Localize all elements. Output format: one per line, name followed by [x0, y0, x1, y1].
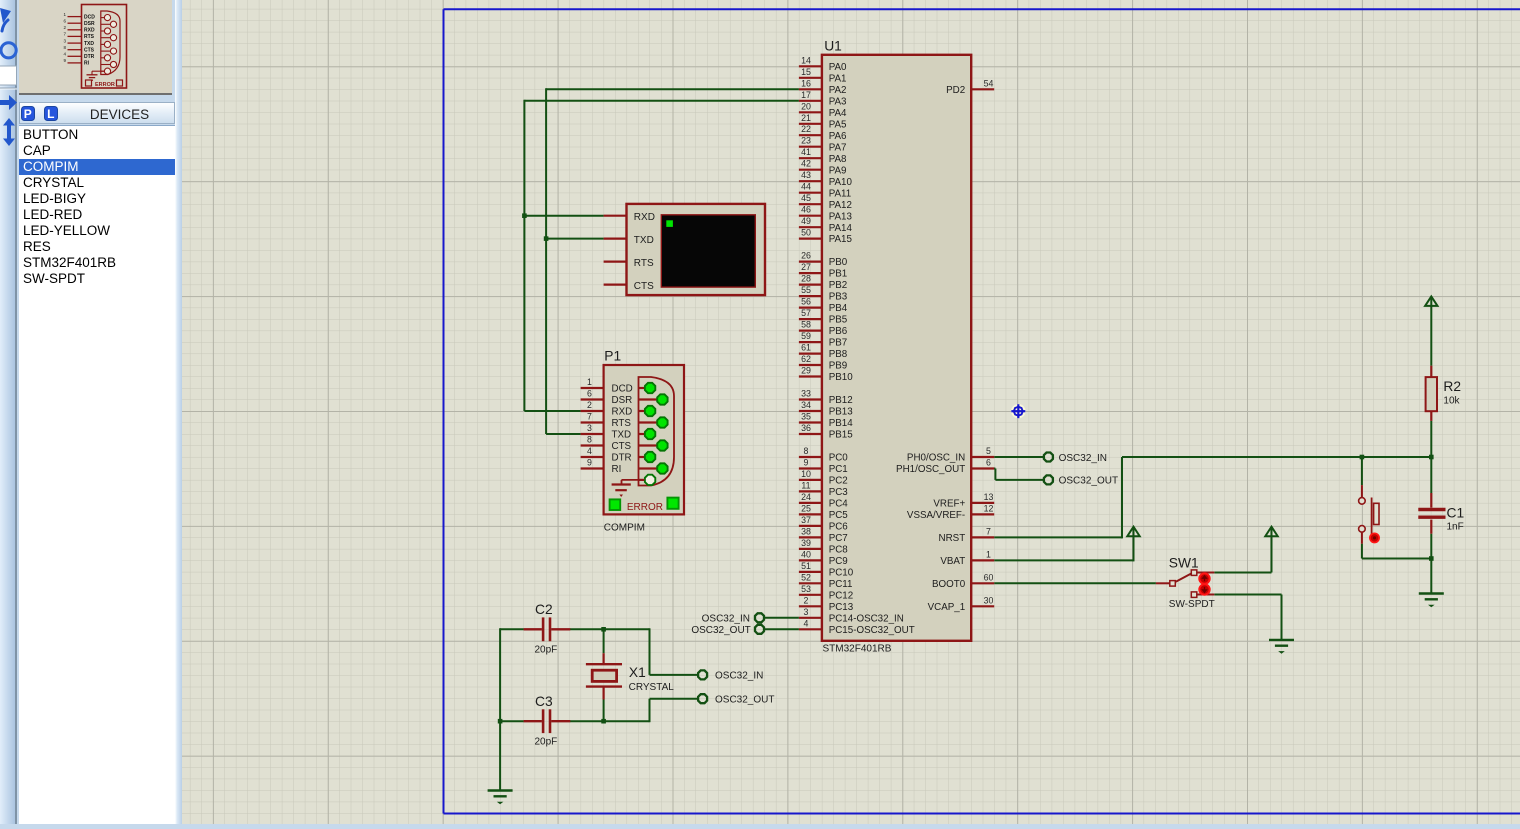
- svg-text:DSR: DSR: [612, 395, 633, 406]
- svg-text:TXD: TXD: [634, 235, 654, 246]
- svg-text:9: 9: [804, 458, 809, 468]
- svg-text:8: 8: [804, 446, 809, 456]
- svg-text:PB3: PB3: [829, 292, 848, 303]
- svg-text:58: 58: [801, 320, 811, 330]
- svg-text:20pF: 20pF: [535, 644, 558, 655]
- svg-text:3: 3: [804, 607, 809, 617]
- svg-text:RXD: RXD: [612, 407, 633, 418]
- svg-text:17: 17: [801, 90, 811, 100]
- svg-text:P1: P1: [604, 349, 621, 364]
- svg-text:6: 6: [63, 18, 66, 23]
- svg-text:ERROR: ERROR: [95, 82, 115, 88]
- svg-text:VSSA/VREF-: VSSA/VREF-: [907, 510, 965, 521]
- svg-text:26: 26: [801, 251, 811, 261]
- svg-text:NRST: NRST: [939, 533, 966, 544]
- svg-text:BOOT0: BOOT0: [932, 579, 966, 590]
- svg-text:PC4: PC4: [829, 499, 849, 510]
- svg-text:43: 43: [801, 170, 811, 180]
- svg-text:11: 11: [801, 480, 810, 490]
- svg-text:39: 39: [801, 538, 811, 548]
- svg-text:RXD: RXD: [84, 28, 95, 34]
- svg-text:PH0/OSC_IN: PH0/OSC_IN: [907, 453, 965, 464]
- svg-text:40: 40: [801, 549, 811, 559]
- svg-text:COMPIM: COMPIM: [604, 523, 645, 534]
- svg-text:7: 7: [587, 412, 592, 422]
- svg-text:PC6: PC6: [829, 522, 849, 533]
- svg-text:PA2: PA2: [829, 85, 847, 96]
- svg-text:C2: C2: [535, 602, 553, 617]
- svg-text:57: 57: [801, 308, 811, 318]
- svg-text:RTS: RTS: [634, 258, 654, 269]
- svg-text:RI: RI: [612, 464, 622, 475]
- svg-text:PD2: PD2: [946, 85, 965, 96]
- svg-text:46: 46: [801, 205, 811, 215]
- svg-text:X1: X1: [629, 665, 646, 680]
- svg-text:OSC32_OUT: OSC32_OUT: [715, 695, 774, 706]
- svg-text:C1: C1: [1447, 506, 1465, 521]
- svg-text:DSR: DSR: [84, 21, 95, 27]
- svg-text:37: 37: [801, 515, 811, 525]
- svg-text:PC13: PC13: [829, 602, 854, 613]
- svg-text:PA7: PA7: [829, 142, 847, 153]
- svg-text:PA9: PA9: [829, 165, 847, 176]
- svg-text:DCD: DCD: [84, 14, 95, 20]
- svg-text:62: 62: [801, 354, 811, 364]
- svg-text:25: 25: [801, 503, 811, 513]
- svg-text:3: 3: [63, 38, 66, 43]
- svg-text:PC3: PC3: [829, 487, 849, 498]
- svg-text:DCD: DCD: [612, 384, 633, 395]
- svg-text:PC15-OSC32_OUT: PC15-OSC32_OUT: [829, 625, 915, 636]
- svg-text:PB14: PB14: [829, 418, 854, 429]
- svg-text:PA10: PA10: [829, 177, 853, 188]
- svg-text:RTS: RTS: [612, 418, 632, 429]
- svg-text:PA11: PA11: [829, 188, 852, 199]
- svg-text:5: 5: [986, 446, 991, 456]
- svg-text:2: 2: [587, 400, 592, 410]
- svg-text:15: 15: [801, 67, 811, 77]
- svg-text:16: 16: [801, 78, 811, 88]
- svg-text:8: 8: [587, 435, 592, 445]
- svg-text:VCAP_1: VCAP_1: [928, 602, 966, 613]
- svg-text:35: 35: [801, 412, 811, 422]
- svg-text:6: 6: [587, 389, 592, 399]
- svg-text:4: 4: [63, 52, 66, 57]
- svg-text:TXD: TXD: [612, 430, 632, 441]
- svg-text:ERROR: ERROR: [627, 502, 663, 513]
- svg-text:PC7: PC7: [829, 533, 848, 544]
- svg-text:36: 36: [801, 423, 811, 433]
- svg-text:42: 42: [801, 159, 811, 169]
- svg-text:24: 24: [801, 492, 811, 502]
- svg-text:8: 8: [63, 45, 66, 50]
- svg-text:VBAT: VBAT: [940, 556, 965, 567]
- svg-text:56: 56: [801, 297, 811, 307]
- svg-text:CTS: CTS: [84, 48, 95, 54]
- svg-text:1: 1: [63, 12, 66, 17]
- svg-text:PC10: PC10: [829, 568, 854, 579]
- svg-text:VREF+: VREF+: [933, 499, 965, 510]
- svg-text:DTR: DTR: [612, 453, 632, 464]
- svg-text:CTS: CTS: [634, 281, 654, 292]
- svg-text:PB5: PB5: [829, 315, 848, 326]
- svg-text:SW-SPDT: SW-SPDT: [1169, 599, 1215, 610]
- svg-text:53: 53: [801, 584, 811, 594]
- svg-text:OSC32_IN: OSC32_IN: [715, 671, 763, 682]
- svg-text:PC14-OSC32_IN: PC14-OSC32_IN: [829, 613, 904, 624]
- svg-text:4: 4: [804, 618, 809, 628]
- svg-text:PC5: PC5: [829, 510, 849, 521]
- svg-text:3: 3: [587, 423, 592, 433]
- svg-text:45: 45: [801, 193, 811, 203]
- svg-text:22: 22: [801, 124, 811, 134]
- svg-text:50: 50: [801, 228, 811, 238]
- svg-text:55: 55: [801, 285, 811, 295]
- svg-text:PB0: PB0: [829, 257, 848, 268]
- svg-text:20: 20: [801, 101, 811, 111]
- svg-text:PA5: PA5: [829, 119, 847, 130]
- svg-text:RXD: RXD: [634, 212, 655, 223]
- svg-text:34: 34: [801, 400, 811, 410]
- svg-text:PC12: PC12: [829, 590, 854, 601]
- svg-text:PC9: PC9: [829, 556, 848, 567]
- svg-text:60: 60: [984, 572, 994, 582]
- svg-text:PB4: PB4: [829, 303, 848, 314]
- svg-text:52: 52: [801, 572, 811, 582]
- svg-text:OSC32_IN: OSC32_IN: [1059, 453, 1107, 464]
- svg-text:OSC32_OUT: OSC32_OUT: [1059, 476, 1118, 487]
- svg-text:59: 59: [801, 331, 811, 341]
- svg-text:PB6: PB6: [829, 326, 848, 337]
- svg-text:PB12: PB12: [829, 395, 853, 406]
- svg-text:PB1: PB1: [829, 269, 848, 280]
- svg-text:54: 54: [984, 78, 994, 88]
- svg-text:10: 10: [801, 469, 811, 479]
- svg-text:6: 6: [986, 458, 991, 468]
- svg-text:PB9: PB9: [829, 361, 848, 372]
- svg-text:PA13: PA13: [829, 211, 853, 222]
- svg-text:U1: U1: [824, 39, 842, 54]
- svg-text:PA14: PA14: [829, 223, 853, 234]
- svg-text:PH1/OSC_OUT: PH1/OSC_OUT: [896, 464, 965, 475]
- svg-text:9: 9: [587, 458, 592, 468]
- svg-text:PA3: PA3: [829, 96, 847, 107]
- svg-text:2: 2: [63, 25, 66, 30]
- svg-text:10k: 10k: [1443, 395, 1460, 406]
- svg-text:1: 1: [587, 377, 592, 387]
- svg-text:SW1: SW1: [1169, 555, 1199, 570]
- svg-text:PC11: PC11: [829, 579, 853, 590]
- svg-text:38: 38: [801, 526, 811, 536]
- svg-text:R2: R2: [1443, 379, 1461, 394]
- svg-text:7: 7: [986, 526, 991, 536]
- svg-text:CTS: CTS: [612, 441, 632, 452]
- svg-text:PA1: PA1: [829, 73, 847, 84]
- svg-text:OSC32_IN: OSC32_IN: [702, 614, 750, 625]
- svg-text:PB2: PB2: [829, 280, 848, 291]
- svg-text:PC8: PC8: [829, 545, 849, 556]
- svg-text:33: 33: [801, 389, 811, 399]
- svg-text:21: 21: [801, 113, 811, 123]
- svg-text:PC0: PC0: [829, 453, 849, 464]
- svg-text:51: 51: [801, 561, 811, 571]
- svg-text:13: 13: [984, 492, 994, 502]
- svg-text:2: 2: [804, 595, 809, 605]
- svg-text:23: 23: [801, 136, 811, 146]
- svg-text:14: 14: [801, 55, 811, 65]
- svg-text:PB15: PB15: [829, 430, 854, 441]
- svg-text:28: 28: [801, 274, 811, 284]
- svg-text:PA15: PA15: [829, 234, 853, 245]
- svg-text:49: 49: [801, 216, 811, 226]
- svg-text:PA0: PA0: [829, 62, 847, 73]
- svg-text:OSC32_OUT: OSC32_OUT: [691, 625, 750, 636]
- svg-text:PA6: PA6: [829, 131, 847, 142]
- svg-text:41: 41: [801, 147, 811, 157]
- svg-text:PB13: PB13: [829, 407, 854, 418]
- svg-text:12: 12: [984, 503, 994, 513]
- svg-text:PA12: PA12: [829, 200, 852, 211]
- svg-text:20pF: 20pF: [535, 737, 558, 748]
- svg-text:9: 9: [63, 58, 66, 63]
- svg-text:44: 44: [801, 182, 811, 192]
- svg-text:STM32F401RB: STM32F401RB: [823, 643, 892, 654]
- svg-text:DTR: DTR: [84, 54, 95, 60]
- svg-text:29: 29: [801, 366, 811, 376]
- svg-text:PB8: PB8: [829, 349, 848, 360]
- svg-text:C3: C3: [535, 694, 553, 709]
- svg-text:PB10: PB10: [829, 372, 854, 383]
- svg-text:RTS: RTS: [84, 34, 95, 40]
- svg-text:RI: RI: [84, 61, 90, 67]
- svg-text:PA4: PA4: [829, 108, 847, 119]
- svg-text:30: 30: [984, 595, 994, 605]
- svg-text:TXD: TXD: [84, 41, 94, 47]
- svg-text:7: 7: [63, 32, 66, 37]
- svg-text:61: 61: [801, 343, 811, 353]
- svg-text:4: 4: [587, 446, 592, 456]
- svg-text:1: 1: [986, 549, 991, 559]
- svg-text:27: 27: [801, 262, 811, 272]
- svg-text:PB7: PB7: [829, 338, 848, 349]
- svg-text:PC2: PC2: [829, 476, 848, 487]
- svg-text:PA8: PA8: [829, 154, 847, 165]
- svg-text:CRYSTAL: CRYSTAL: [629, 682, 675, 693]
- svg-text:1nF: 1nF: [1447, 522, 1464, 533]
- svg-text:PC1: PC1: [829, 464, 848, 475]
